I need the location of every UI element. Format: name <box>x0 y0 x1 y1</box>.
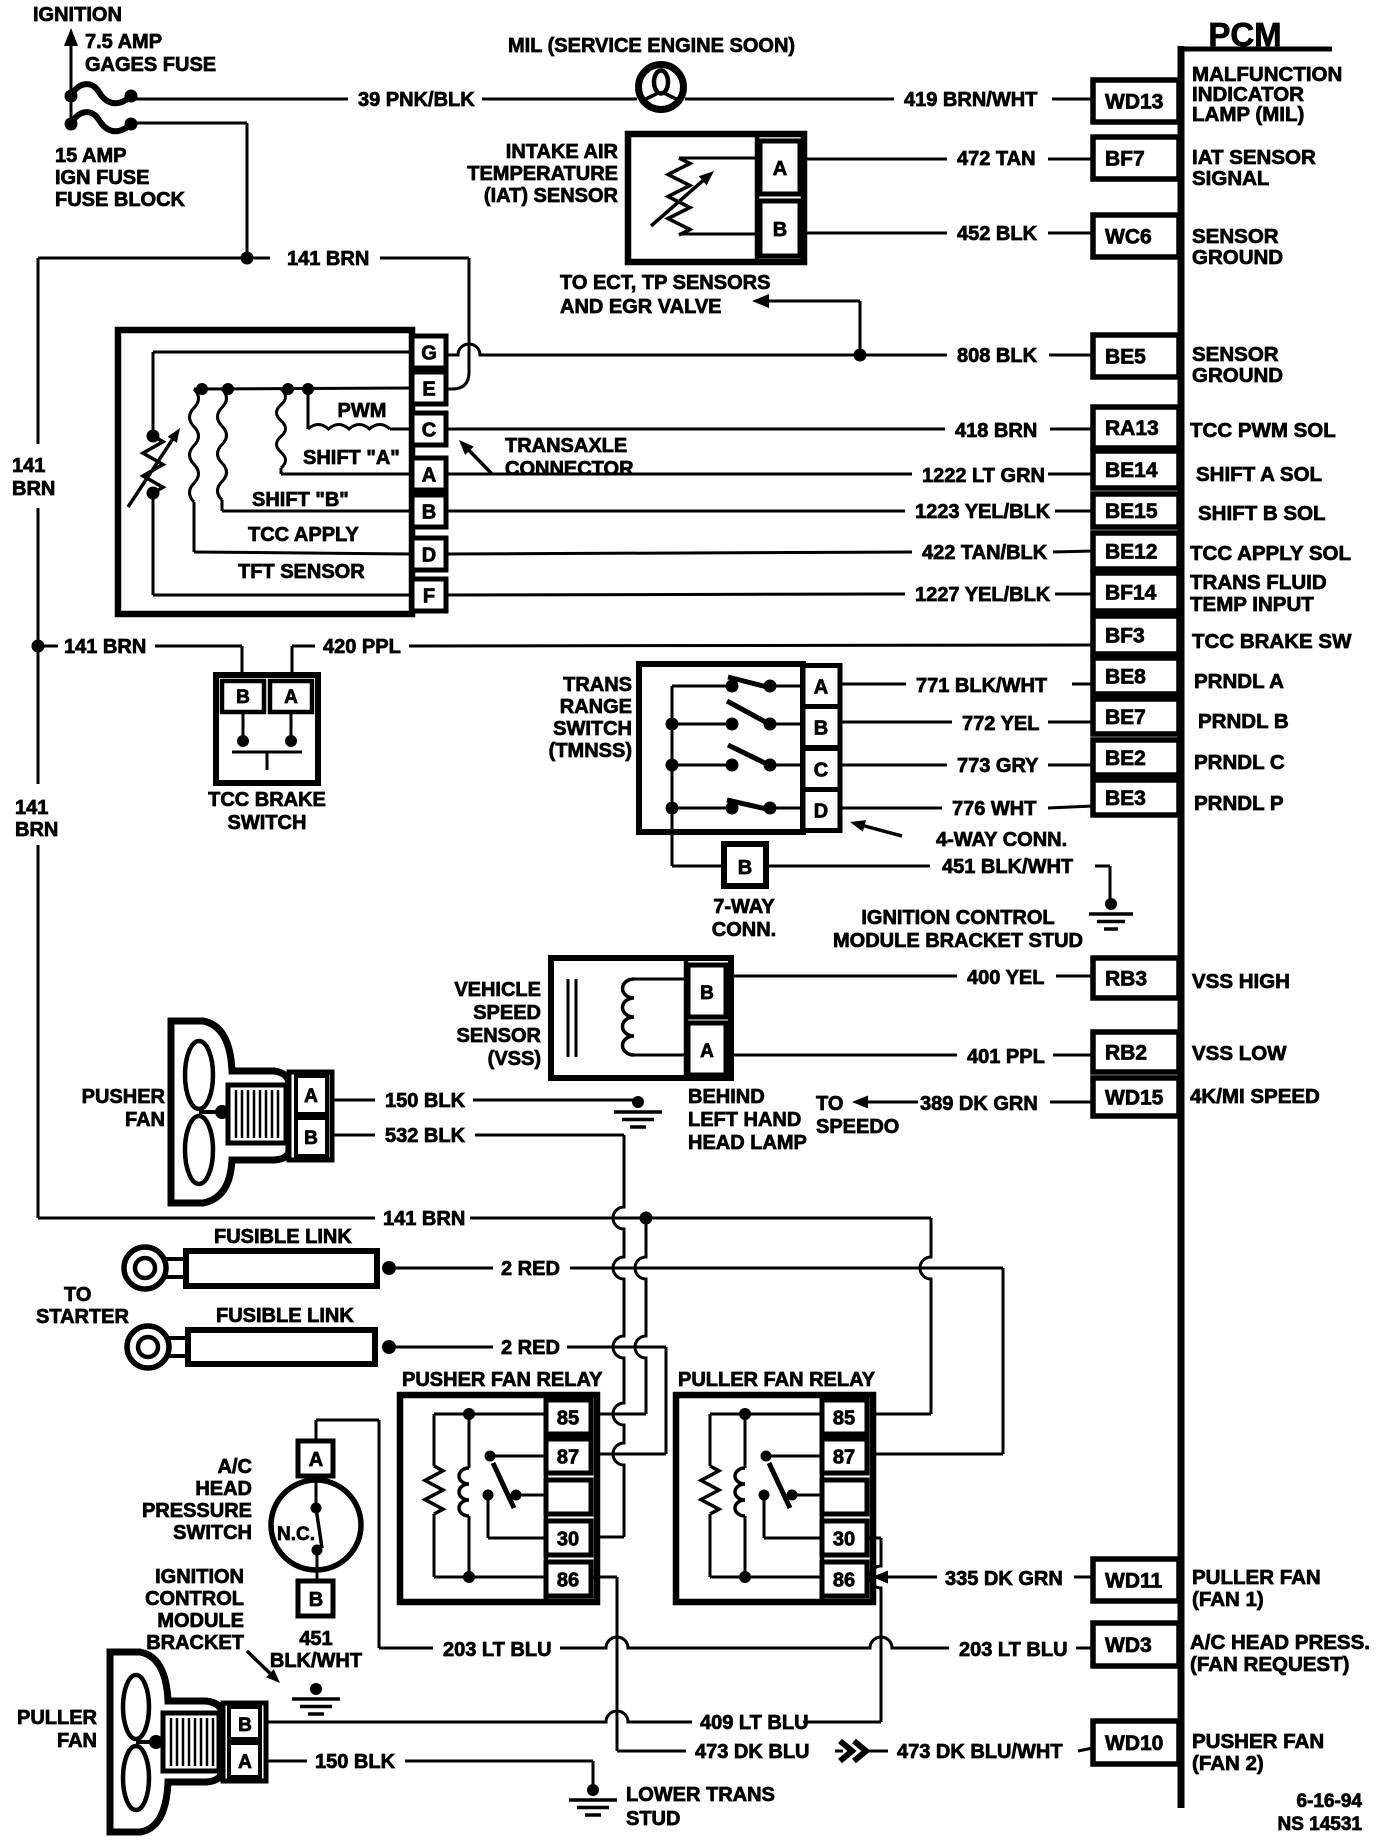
svg-text:MODULE BRACKET STUD: MODULE BRACKET STUD <box>833 930 1083 952</box>
svg-text:TRANS FLUID: TRANS FLUID <box>1190 571 1327 594</box>
svg-text:2 RED: 2 RED <box>501 1258 560 1280</box>
svg-text:SWITCH: SWITCH <box>173 1522 252 1544</box>
svg-text:(VSS): (VSS) <box>488 1048 541 1070</box>
svg-text:CONNECTOR: CONNECTOR <box>505 458 634 480</box>
svg-text:6-16-94: 6-16-94 <box>1297 1791 1363 1812</box>
svg-text:HEAD: HEAD <box>195 1478 252 1500</box>
svg-text:BE8: BE8 <box>1105 666 1146 689</box>
svg-text:PWM: PWM <box>338 400 387 422</box>
svg-text:PRNDL B: PRNDL B <box>1198 710 1289 733</box>
svg-text:86: 86 <box>833 1570 855 1592</box>
svg-text:203 LT BLU: 203 LT BLU <box>959 1639 1068 1661</box>
svg-text:FUSE BLOCK: FUSE BLOCK <box>55 189 186 211</box>
svg-text:B: B <box>238 1715 252 1736</box>
svg-text:PULLER FAN RELAY: PULLER FAN RELAY <box>678 1369 876 1391</box>
svg-text:A: A <box>700 1041 714 1062</box>
svg-text:TCC PWM SOL: TCC PWM SOL <box>1190 419 1336 442</box>
svg-text:RANGE: RANGE <box>560 696 632 718</box>
svg-text:A: A <box>309 1449 323 1471</box>
svg-text:PCM: PCM <box>1208 16 1281 53</box>
svg-text:IGNITION: IGNITION <box>155 1566 244 1588</box>
svg-text:400 YEL: 400 YEL <box>967 967 1044 989</box>
svg-text:PULLER: PULLER <box>17 1707 98 1729</box>
svg-text:BE15: BE15 <box>1105 500 1158 523</box>
svg-text:CONN.: CONN. <box>712 919 776 941</box>
svg-text:TCC BRAKE SW: TCC BRAKE SW <box>1192 630 1352 653</box>
svg-text:141 BRN: 141 BRN <box>64 636 146 658</box>
svg-text:IGN FUSE: IGN FUSE <box>55 167 149 189</box>
svg-text:401 PPL: 401 PPL <box>967 1046 1045 1068</box>
svg-text:SHIFT B SOL: SHIFT B SOL <box>1198 502 1326 525</box>
svg-text:B: B <box>738 857 752 879</box>
svg-text:85: 85 <box>833 1408 855 1430</box>
svg-text:LAMP (MIL): LAMP (MIL) <box>1192 103 1304 126</box>
svg-text:HEAD LAMP: HEAD LAMP <box>688 1132 807 1154</box>
svg-text:WC6: WC6 <box>1105 226 1152 249</box>
svg-text:GAGES FUSE: GAGES FUSE <box>85 54 216 76</box>
svg-text:C: C <box>814 760 828 782</box>
svg-text:A: A <box>304 1086 318 1107</box>
svg-text:IGNITION CONTROL: IGNITION CONTROL <box>861 907 1054 929</box>
svg-text:BF14: BF14 <box>1105 582 1157 605</box>
svg-text:39 PNK/BLK: 39 PNK/BLK <box>358 89 475 111</box>
svg-text:BE2: BE2 <box>1105 747 1146 770</box>
svg-text:PULLER FAN: PULLER FAN <box>1192 1566 1321 1589</box>
svg-text:VSS HIGH: VSS HIGH <box>1192 970 1290 993</box>
svg-text:1222 LT GRN: 1222 LT GRN <box>922 465 1045 487</box>
svg-text:422 TAN/BLK: 422 TAN/BLK <box>922 542 1048 564</box>
svg-text:PRNDL A: PRNDL A <box>1194 670 1284 693</box>
svg-text:A/C HEAD PRESS.: A/C HEAD PRESS. <box>1190 1631 1370 1654</box>
svg-text:B: B <box>773 219 787 241</box>
svg-text:PUSHER: PUSHER <box>82 1086 166 1108</box>
svg-text:419 BRN/WHT: 419 BRN/WHT <box>904 89 1037 111</box>
svg-text:86: 86 <box>557 1570 579 1592</box>
svg-text:INTAKE AIR: INTAKE AIR <box>506 141 619 163</box>
svg-text:389 DK GRN: 389 DK GRN <box>920 1093 1038 1115</box>
svg-text:150 BLK: 150 BLK <box>315 1751 396 1773</box>
svg-text:7-WAY: 7-WAY <box>713 896 775 918</box>
svg-text:TO ECT, TP SENSORS: TO ECT, TP SENSORS <box>560 272 770 294</box>
svg-text:BE12: BE12 <box>1105 541 1158 564</box>
svg-text:SWITCH: SWITCH <box>228 812 307 834</box>
svg-text:IAT SENSOR: IAT SENSOR <box>1192 146 1316 169</box>
svg-text:30: 30 <box>833 1529 855 1551</box>
svg-text:STARTER: STARTER <box>36 1306 130 1328</box>
svg-text:TCC APPLY: TCC APPLY <box>248 524 359 546</box>
svg-text:1227 YEL/BLK: 1227 YEL/BLK <box>915 584 1051 606</box>
svg-text:451 BLK/WHT: 451 BLK/WHT <box>942 856 1073 878</box>
svg-text:F: F <box>423 586 435 608</box>
svg-text:B: B <box>814 718 828 740</box>
svg-text:4K/MI SPEED: 4K/MI SPEED <box>1190 1085 1320 1108</box>
svg-text:418 BRN: 418 BRN <box>955 420 1037 442</box>
svg-text:15 AMP: 15 AMP <box>55 145 127 167</box>
svg-text:VEHICLE: VEHICLE <box>454 979 541 1001</box>
svg-text:SHIFT "B": SHIFT "B" <box>252 489 349 511</box>
svg-text:SENSOR: SENSOR <box>457 1025 542 1047</box>
svg-text:B: B <box>236 687 250 708</box>
svg-text:85: 85 <box>557 1408 579 1430</box>
svg-text:E: E <box>422 379 435 401</box>
svg-text:30: 30 <box>557 1529 579 1551</box>
svg-text:WD10: WD10 <box>1105 1732 1163 1755</box>
svg-text:150 BLK: 150 BLK <box>385 1090 466 1112</box>
svg-text:FAN: FAN <box>57 1730 97 1752</box>
svg-text:WD15: WD15 <box>1105 1087 1164 1110</box>
svg-text:SENSOR: SENSOR <box>1192 343 1279 366</box>
svg-text:AND EGR VALVE: AND EGR VALVE <box>560 296 722 318</box>
svg-text:TRANSAXLE: TRANSAXLE <box>505 435 627 457</box>
svg-text:141 BRN: 141 BRN <box>383 1208 465 1230</box>
svg-text:B: B <box>422 502 436 524</box>
svg-text:SPEEDO: SPEEDO <box>816 1116 899 1138</box>
svg-text:771 BLK/WHT: 771 BLK/WHT <box>916 675 1047 697</box>
svg-text:420 PPL: 420 PPL <box>323 636 401 658</box>
svg-text:A/C: A/C <box>218 1456 252 1478</box>
svg-text:PUSHER FAN: PUSHER FAN <box>1192 1730 1324 1753</box>
svg-text:808 BLK: 808 BLK <box>957 345 1038 367</box>
svg-text:WD11: WD11 <box>1105 1570 1163 1593</box>
svg-text:TO: TO <box>816 1093 843 1115</box>
svg-text:773 GRY: 773 GRY <box>957 755 1039 777</box>
svg-text:532 BLK: 532 BLK <box>385 1125 466 1147</box>
svg-text:A: A <box>773 158 787 180</box>
svg-text:335 DK GRN: 335 DK GRN <box>945 1568 1063 1590</box>
svg-text:473 DK BLU/WHT: 473 DK BLU/WHT <box>897 1741 1063 1763</box>
svg-text:141: 141 <box>12 455 45 477</box>
svg-text:BF3: BF3 <box>1105 625 1145 648</box>
svg-text:409 LT BLU: 409 LT BLU <box>700 1712 809 1734</box>
svg-text:RB3: RB3 <box>1105 968 1147 991</box>
svg-text:PRESSURE: PRESSURE <box>142 1500 252 1522</box>
svg-text:BLK/WHT: BLK/WHT <box>270 1650 362 1672</box>
svg-text:87: 87 <box>833 1447 855 1469</box>
svg-text:A: A <box>422 465 436 487</box>
svg-text:BE3: BE3 <box>1105 787 1146 810</box>
svg-text:WD13: WD13 <box>1105 91 1163 114</box>
svg-text:TRANS: TRANS <box>563 674 632 696</box>
svg-text:SHIFT A SOL: SHIFT A SOL <box>1196 463 1322 486</box>
svg-text:BRACKET: BRACKET <box>146 1632 244 1654</box>
svg-text:FAN: FAN <box>125 1109 165 1131</box>
svg-text:776 WHT: 776 WHT <box>952 798 1036 820</box>
svg-text:C: C <box>422 420 436 442</box>
svg-text:A: A <box>814 677 828 699</box>
svg-text:BEHIND: BEHIND <box>688 1086 765 1108</box>
svg-text:(FAN REQUEST): (FAN REQUEST) <box>1190 1653 1349 1676</box>
svg-text:(IAT) SENSOR: (IAT) SENSOR <box>484 185 619 207</box>
svg-text:TCC BRAKE: TCC BRAKE <box>208 789 326 811</box>
svg-text:TCC APPLY SOL: TCC APPLY SOL <box>1190 542 1351 565</box>
svg-text:SIGNAL: SIGNAL <box>1192 167 1269 190</box>
svg-text:(TMNSS): (TMNSS) <box>549 740 632 762</box>
svg-text:STUD: STUD <box>626 1808 680 1830</box>
svg-text:WD3: WD3 <box>1105 1634 1152 1657</box>
svg-text:B: B <box>309 1589 323 1611</box>
svg-text:TEMPERATURE: TEMPERATURE <box>467 163 618 185</box>
svg-text:1223 YEL/BLK: 1223 YEL/BLK <box>915 501 1051 523</box>
svg-text:D: D <box>422 545 436 567</box>
svg-text:LEFT HAND: LEFT HAND <box>688 1109 801 1131</box>
svg-text:(FAN 1): (FAN 1) <box>1192 1588 1264 1611</box>
svg-text:FUSIBLE LINK: FUSIBLE LINK <box>214 1226 352 1248</box>
svg-text:BF7: BF7 <box>1105 148 1145 171</box>
svg-text:TFT SENSOR: TFT SENSOR <box>238 561 365 583</box>
svg-text:473 DK BLU: 473 DK BLU <box>695 1741 809 1763</box>
svg-text:4-WAY CONN.: 4-WAY CONN. <box>936 829 1067 851</box>
svg-text:2 RED: 2 RED <box>501 1337 560 1359</box>
svg-text:451: 451 <box>299 1628 332 1650</box>
svg-text:452 BLK: 452 BLK <box>957 223 1038 245</box>
svg-text:FUSIBLE LINK: FUSIBLE LINK <box>216 1305 354 1327</box>
svg-text:(FAN 2): (FAN 2) <box>1192 1752 1264 1775</box>
svg-text:B: B <box>700 983 714 1004</box>
svg-text:IGNITION: IGNITION <box>33 4 122 26</box>
svg-text:PRNDL P: PRNDL P <box>1194 792 1284 815</box>
svg-text:MIL (SERVICE ENGINE SOON): MIL (SERVICE ENGINE SOON) <box>508 35 795 57</box>
svg-text:BE5: BE5 <box>1105 346 1146 369</box>
svg-text:A: A <box>284 687 298 708</box>
svg-text:D: D <box>814 801 828 823</box>
svg-text:BE7: BE7 <box>1105 706 1146 729</box>
svg-text:772 YEL: 772 YEL <box>962 713 1039 735</box>
svg-text:GROUND: GROUND <box>1192 246 1283 269</box>
svg-text:7.5 AMP: 7.5 AMP <box>85 31 162 53</box>
svg-text:RB2: RB2 <box>1105 1042 1147 1065</box>
svg-text:A: A <box>238 1752 252 1773</box>
svg-text:PRNDL C: PRNDL C <box>1194 751 1285 774</box>
svg-text:MODULE: MODULE <box>157 1610 244 1632</box>
svg-text:SHIFT "A": SHIFT "A" <box>303 447 400 469</box>
svg-text:SENSOR: SENSOR <box>1192 225 1279 248</box>
svg-text:141 BRN: 141 BRN <box>287 248 369 270</box>
svg-text:RA13: RA13 <box>1105 417 1159 440</box>
svg-text:G: G <box>421 343 437 365</box>
svg-text:141: 141 <box>15 797 48 819</box>
svg-text:N.C.: N.C. <box>277 1524 315 1545</box>
svg-text:BE14: BE14 <box>1105 459 1158 482</box>
svg-text:472 TAN: 472 TAN <box>957 148 1036 170</box>
svg-text:87: 87 <box>557 1447 579 1469</box>
svg-text:TO: TO <box>64 1284 91 1306</box>
svg-text:GROUND: GROUND <box>1192 364 1283 387</box>
svg-text:NS 14531: NS 14531 <box>1277 1814 1362 1835</box>
svg-text:PUSHER FAN RELAY: PUSHER FAN RELAY <box>402 1369 603 1391</box>
svg-text:BRN: BRN <box>12 478 55 500</box>
svg-text:203 LT BLU: 203 LT BLU <box>443 1639 552 1661</box>
svg-text:VSS LOW: VSS LOW <box>1192 1042 1287 1065</box>
svg-text:LOWER TRANS: LOWER TRANS <box>626 1784 775 1806</box>
svg-text:SPEED: SPEED <box>473 1002 541 1024</box>
svg-text:SWITCH: SWITCH <box>553 718 632 740</box>
svg-text:TEMP INPUT: TEMP INPUT <box>1190 593 1314 616</box>
svg-text:BRN: BRN <box>15 819 58 841</box>
svg-text:B: B <box>304 1128 318 1149</box>
svg-text:CONTROL: CONTROL <box>145 1588 244 1610</box>
